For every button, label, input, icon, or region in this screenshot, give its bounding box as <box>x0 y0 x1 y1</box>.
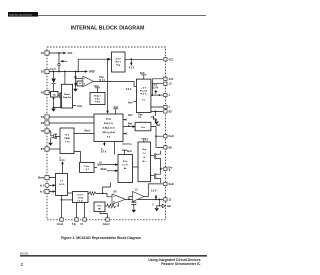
svg-text:Vref: Vref <box>128 115 133 117</box>
wire QB hang <box>155 111 157 116</box>
svg-text:5.0 V 5.1: 5.0 V 5.1 <box>123 144 133 146</box>
wire op-amp U1 out to box B <box>94 81 137 86</box>
svg-text:- 0.1: - 0.1 <box>85 169 90 171</box>
ground under QB <box>154 122 159 125</box>
wire drop to logic box C <box>107 59 109 113</box>
ground below out wire <box>154 208 159 211</box>
junction node sense mid <box>53 98 55 100</box>
svg-text:B-A (1:1): B-A (1:1) <box>104 122 113 125</box>
junction node R3 riser <box>151 94 153 96</box>
wire box D bottom to filter G2 <box>74 152 80 163</box>
resistor R2 <box>107 204 116 208</box>
svg-text:Prg 4.2: Prg 4.2 <box>140 90 148 93</box>
wire box M out through resistor <box>105 203 119 206</box>
pin 16 (VCC) <box>164 58 167 61</box>
wire box H to box I <box>133 166 139 168</box>
pins right <box>164 58 167 201</box>
diode D1 <box>51 78 55 83</box>
pin Gnd1 <box>60 218 63 221</box>
pin 9 (L9 in1, round) <box>45 183 49 187</box>
block text <box>53 58 148 211</box>
svg-text:Ref 1: Ref 1 <box>116 62 122 64</box>
svg-text:9.7 k: 9.7 k <box>101 152 107 154</box>
wire T1 top rail <box>160 151 162 153</box>
wire G flag arrow up <box>62 162 64 173</box>
wire box B stub left lower <box>133 101 136 103</box>
wire pin B2 <box>76 203 78 218</box>
ground under C1 <box>132 210 137 213</box>
svg-text:4.2 V: 4.2 V <box>129 66 135 69</box>
ground under sense chain <box>51 109 56 112</box>
wire box I to T1 T2 gates <box>151 156 153 176</box>
pins bottom <box>60 218 109 221</box>
svg-text:4.2 V: 4.2 V <box>116 58 122 61</box>
wire box H inputs <box>103 165 118 171</box>
wire QD to box D <box>58 136 60 138</box>
junction node ref riser <box>77 71 79 73</box>
pins left <box>45 51 49 194</box>
svg-text:1.0 V: 1.0 V <box>151 190 157 192</box>
wire pin B3 <box>84 203 86 218</box>
svg-text:Nom: Nom <box>98 164 103 166</box>
capacitor C1 <box>131 202 136 204</box>
wire C0 antenna <box>95 88 100 93</box>
svg-text:4.2V: 4.2V <box>169 78 174 81</box>
arrow boxG in1 <box>53 184 56 187</box>
wire box G right to box J <box>68 192 73 194</box>
svg-text:And: And <box>127 150 132 153</box>
block H <box>118 155 133 183</box>
svg-text:VCC: VCC <box>68 53 73 55</box>
pin 9 (L9 in1) <box>45 189 49 193</box>
svg-text:Gap Ref: Gap Ref <box>63 97 72 99</box>
junction node R3 pnp <box>155 111 157 113</box>
svg-text:Passive Seismometer IC: Passive Seismometer IC <box>161 262 201 266</box>
wire box I antenna <box>141 139 146 142</box>
wire box D right to box C <box>74 133 94 135</box>
op-amp U2 <box>112 194 126 204</box>
junction node totem out <box>160 168 162 170</box>
wire riser to ref box <box>78 59 110 71</box>
block D <box>60 128 74 154</box>
svg-text:A-B(p) (1:1): A-B(p) (1:1) <box>103 127 115 130</box>
wires <box>49 53 163 217</box>
arrow boxH in2 <box>115 170 118 173</box>
svg-text:5.7 %: 5.7 % <box>122 165 128 167</box>
wire box B antenna <box>141 75 146 79</box>
wire osc E out to pins R6 R7 <box>151 127 163 148</box>
wire box C out to osc box E <box>123 126 135 128</box>
pin 9X <box>164 146 167 149</box>
wire L1 down via switch <box>58 53 60 72</box>
wire G2 right stub <box>94 166 97 168</box>
wire box C drop to box H <box>114 142 116 155</box>
svg-text:Order this document by: Order this document by <box>9 14 33 17</box>
block G2 filter <box>80 162 94 172</box>
svg-text:5 of 7: 5 of 7 <box>77 195 83 197</box>
arrow 4.2V flag <box>130 63 133 66</box>
wire riser to pins R2a R2b <box>152 79 163 95</box>
wire pin L7 into box D <box>49 148 60 150</box>
junction node oscout <box>155 135 157 137</box>
svg-text:Trig: Trig <box>116 65 121 67</box>
junction node boxG out <box>61 199 63 201</box>
junction node cap tap <box>133 199 135 201</box>
svg-text:Pwr: Pwr <box>99 77 103 79</box>
arrow boxG flag <box>61 161 64 164</box>
block sense 1A <box>51 92 59 98</box>
svg-text:Gnd 2: Gnd 2 <box>103 224 110 226</box>
svg-text:1 Gnd: 1 Gnd <box>57 224 64 226</box>
blocks <box>51 52 151 212</box>
junction node VCC tap <box>58 52 60 54</box>
junction node D1 top <box>53 71 55 73</box>
block E osc <box>135 122 151 131</box>
wire vref flag down <box>130 59 132 64</box>
header black tag <box>8 12 38 17</box>
pin 1 (L1 Vin) <box>45 51 49 55</box>
wire QD gnd drop <box>50 140 52 143</box>
svg-text:1.0 Ω: 1.0 Ω <box>78 198 84 200</box>
wire to out triangle <box>157 199 163 208</box>
wire to op-amp U1 in+ <box>76 78 83 80</box>
svg-text:Mode: Mode <box>101 169 108 171</box>
junction node vref out <box>130 58 132 60</box>
wire pin L2 net <box>49 71 87 73</box>
wire box B right to pin R3 <box>151 94 163 96</box>
junction node boxA feed <box>64 71 66 73</box>
pin F1 <box>83 218 86 221</box>
svg-text:And: And <box>114 106 119 109</box>
svg-text:Out: Out <box>167 205 171 208</box>
svg-text:NV: NV <box>98 209 102 211</box>
wire box B outputs to pins R4 R5 <box>151 107 163 111</box>
junction node out tap <box>158 199 160 201</box>
arrow VCC <box>63 52 66 55</box>
svg-text:4.2 V: 4.2 V <box>126 88 132 91</box>
arrowheads <box>53 52 158 198</box>
junction node csrc chain <box>75 71 77 73</box>
block G <box>56 174 68 196</box>
svg-text:VCC: VCC <box>140 73 145 75</box>
wire pin B4 to box M <box>100 212 108 218</box>
svg-text:R 1:1: R 1:1 <box>99 80 105 82</box>
wire box C antenna <box>113 109 118 114</box>
svg-text:T 1.0: T 1.0 <box>65 142 71 144</box>
op-amp U1 <box>83 76 94 87</box>
pin In5 <box>75 218 78 221</box>
pin 15 <box>164 77 167 80</box>
wire op-amp U3 out to pin R9 <box>144 184 163 197</box>
transistor T2 <box>153 173 161 181</box>
svg-text:1A: 1A <box>53 93 56 96</box>
arrow boxG in2 <box>53 190 56 193</box>
svg-text:5.2 V: 5.2 V <box>50 69 56 71</box>
junction node QB tap <box>158 94 160 96</box>
svg-text:VCC: VCC <box>169 59 174 61</box>
pin 7 (L7 pwm in) <box>45 147 49 151</box>
svg-text:1.8 ±: 1.8 ± <box>152 85 158 87</box>
svg-text:B (a): B (a) <box>106 119 111 121</box>
block A2 <box>77 81 83 86</box>
svg-text:Pwr: Pwr <box>128 123 132 125</box>
wire box H antenna <box>122 150 127 154</box>
svg-text:EA: EA <box>114 191 118 194</box>
transistor QR3 <box>154 90 157 94</box>
arrow up flag <box>155 195 158 198</box>
svg-text:Out2: Out2 <box>169 183 175 186</box>
pin Out1 <box>164 135 167 138</box>
arrow into ref box <box>108 58 111 61</box>
wire pin L3 into sense box <box>49 92 51 94</box>
pin 5 (L5 in B) <box>45 121 49 125</box>
pin Out2 <box>164 182 167 185</box>
resistor R1 <box>89 192 95 195</box>
block B <box>136 79 151 112</box>
switch control arrow under L1 <box>58 61 67 65</box>
wire pins L4 L5 into box C <box>49 117 94 123</box>
pin Drv <box>164 167 167 170</box>
wire ref box out to pin R1 <box>125 58 163 60</box>
wire totem output to pin R8 <box>161 161 163 173</box>
svg-text:Vref: Vref <box>128 102 133 104</box>
arrow VREF <box>85 70 88 73</box>
wire box A right stub <box>73 105 77 107</box>
svg-text:Seq: Seq <box>142 149 147 151</box>
svg-text:Band: Band <box>64 94 70 96</box>
wire junction to box J <box>62 199 73 201</box>
wire sense box down to gnd rail <box>54 97 62 108</box>
pin 12 <box>164 105 167 108</box>
wire flag arrow up <box>155 196 157 200</box>
block A bandgap <box>62 84 73 108</box>
svg-text:B 4p 1: B 4p 1 <box>94 95 101 98</box>
wire box A top feed <box>64 72 66 85</box>
wire current source chain <box>76 72 78 89</box>
transistor Q1 <box>58 92 62 107</box>
svg-text:AN1543: AN1543 <box>20 253 29 256</box>
svg-text:Gnd: Gnd <box>77 106 82 108</box>
svg-text:Out1: Out1 <box>169 135 175 138</box>
svg-text:And: And <box>94 85 99 88</box>
svg-text:1.6 %: 1.6 % <box>59 184 65 186</box>
svg-text:2: 2 <box>21 262 24 267</box>
wire pin L1 VCC <box>49 52 66 54</box>
wire T2 bottom stub <box>160 181 162 183</box>
svg-text:B(P=q) (5:4): B(P=q) (5:4) <box>102 131 115 134</box>
svg-text:+ 5 V: + 5 V <box>141 88 147 90</box>
out triangle marker <box>162 204 165 208</box>
block C0 <box>90 93 105 105</box>
svg-text:Puls: Puls <box>84 166 89 168</box>
wire box G bottom to pin B1 <box>61 195 63 217</box>
svg-text:3.2 %: 3.2 % <box>152 87 158 89</box>
arrow boxH in1 <box>115 163 118 166</box>
pin 11 <box>164 110 167 113</box>
tiny labels <box>38 53 174 226</box>
svg-text:2'd p: 2'd p <box>95 99 101 101</box>
junction node refbox drop <box>107 58 109 60</box>
pin Gnd2 <box>106 218 109 221</box>
svg-text:Pwr.1: Pwr.1 <box>85 131 92 133</box>
current source arrows on chain <box>74 76 77 79</box>
wire box C right stubs <box>123 120 126 134</box>
svg-text:VREF: VREF <box>89 71 96 73</box>
arrow into box C <box>106 111 109 114</box>
IC dashed border <box>47 47 165 220</box>
svg-text:Ref: Ref <box>157 125 161 127</box>
ground at chain bottom <box>73 89 78 92</box>
wire jog to op-amp U3 <box>129 197 133 200</box>
op-amp U3 <box>133 192 145 202</box>
block reference <box>111 52 125 72</box>
junction node flag tap <box>155 199 157 201</box>
block M <box>94 202 105 212</box>
svg-text:PWM: PWM <box>64 138 70 140</box>
pin 8 (L8 mode) <box>45 176 49 180</box>
svg-text:Mode: Mode <box>38 178 45 180</box>
svg-text:5 In: 5 In <box>72 224 77 226</box>
wire feedback riser <box>103 183 111 194</box>
junction node gnd rail <box>53 107 55 109</box>
junction node L2-switch <box>58 71 60 73</box>
transistor T1 <box>153 153 161 161</box>
block I <box>138 142 151 182</box>
svg-text:1.0 µs: 1.0 µs <box>77 201 84 203</box>
junction node fb riser <box>102 193 104 195</box>
transistor QB (pnp to ground) <box>151 116 158 121</box>
block C logic <box>94 114 123 142</box>
svg-text:Pwr: Pwr <box>138 115 142 117</box>
svg-text:Figure 2. MC34161 Representati: Figure 2. MC34161 Representative Block D… <box>61 236 141 240</box>
wire box G pins <box>49 178 56 192</box>
svg-text:9.1 k: 9.1 k <box>60 160 66 162</box>
ground under QD <box>48 143 53 146</box>
svg-text:9/X: 9/X <box>169 147 173 149</box>
pin 13 <box>164 93 167 96</box>
pin 4 (L4 in A) <box>45 115 49 119</box>
arrow boxC flag <box>103 143 106 146</box>
svg-text:Pwr: Pwr <box>97 206 101 208</box>
svg-text:B %: B % <box>123 161 127 163</box>
pin 12b <box>164 198 167 201</box>
wire box J out through resistor <box>88 193 112 196</box>
arrow into osc <box>132 125 135 128</box>
block J delay <box>73 192 89 203</box>
pin 14 <box>164 82 167 85</box>
svg-text:R 4 %: R 4 % <box>141 93 147 96</box>
wire op-amp U2 out <box>126 198 163 200</box>
pin 3 (L3 sense2) <box>45 90 49 94</box>
wire cap C1 hang <box>133 199 135 209</box>
pin 6 (L6 ctrl) <box>45 129 49 133</box>
svg-text:T.PO: T.PO <box>95 102 100 104</box>
pin 2 (L2 sense) <box>45 69 49 73</box>
junction node U2-U3 jog <box>128 199 130 201</box>
junction dots <box>53 52 162 201</box>
wire box C down flag <box>103 142 105 145</box>
transistor QD <box>51 133 59 140</box>
svg-text:INTERNAL BLOCK DIAGRAM: INTERNAL BLOCK DIAGRAM <box>71 25 145 31</box>
header rule <box>38 14 206 17</box>
wire diode chain <box>53 72 55 92</box>
footer rule <box>20 255 207 256</box>
wire pin L6 jog to QD <box>49 131 53 136</box>
